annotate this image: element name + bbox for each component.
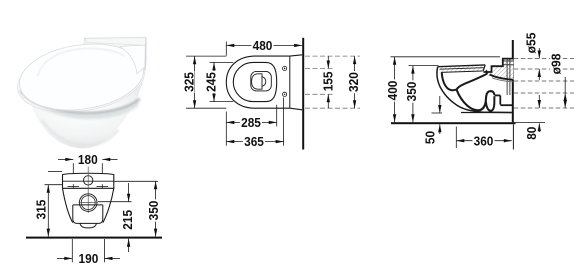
svg-text:365: 365 — [244, 134, 264, 149]
svg-text:400: 400 — [385, 81, 400, 101]
svg-text:360: 360 — [474, 133, 494, 148]
svg-text:50: 50 — [422, 131, 437, 144]
svg-text:325: 325 — [182, 72, 197, 92]
svg-text:ø55: ø55 — [523, 33, 538, 54]
svg-text:315: 315 — [34, 200, 49, 220]
svg-text:285: 285 — [241, 115, 261, 130]
svg-text:215: 215 — [120, 210, 135, 230]
svg-text:180: 180 — [78, 152, 98, 167]
svg-text:ø98: ø98 — [548, 54, 563, 75]
svg-text:155: 155 — [320, 72, 335, 92]
svg-text:320: 320 — [346, 72, 361, 92]
svg-text:190: 190 — [79, 251, 99, 266]
svg-text:350: 350 — [404, 82, 419, 102]
svg-text:480: 480 — [253, 38, 273, 53]
svg-text:80: 80 — [524, 127, 539, 140]
svg-text:350: 350 — [146, 201, 161, 221]
svg-text:245: 245 — [204, 72, 219, 92]
